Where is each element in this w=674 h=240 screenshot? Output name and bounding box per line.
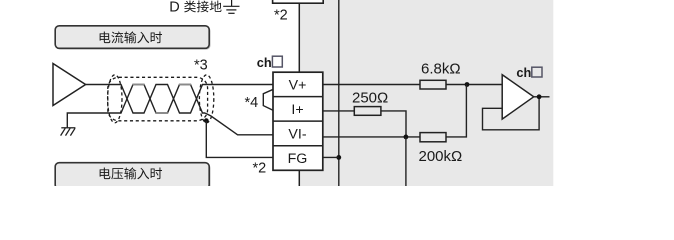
wire: source to V+ (upper conductor) (86, 85, 273, 114)
svg-text:200kΩ: 200kΩ (419, 148, 463, 165)
callout box: 电流输入时 (current input) (57, 27, 211, 50)
module shaded area (299, 0, 553, 186)
cable end ellipse (right) (199, 75, 213, 123)
svg-text:*2: *2 (253, 161, 267, 177)
svg-text:6.8kΩ: 6.8kΩ (421, 61, 461, 78)
wire: lower conductor to source ground (67, 113, 112, 128)
wire: shield to FG (206, 121, 273, 158)
label: 类接地 glyphs (184, 1, 221, 13)
wire: V+ to 6.8k resistor (323, 84, 420, 86)
wire: lower conductor to VI- (205, 113, 273, 135)
FG bus wire (vertical, full height) (338, 0, 340, 186)
svg-text:VI-: VI- (288, 126, 306, 142)
node: shunt junction on VI- wire (404, 135, 409, 140)
svg-text:I+: I+ (291, 102, 303, 118)
output wire (534, 96, 550, 98)
svg-text:D: D (169, 0, 179, 16)
module left boundary line (298, 0, 300, 186)
feedback loop wire (483, 97, 540, 130)
lower conductor (twisted with upper) (112, 85, 205, 114)
wire: 250 resistor down to VI- wire (381, 111, 406, 137)
svg-text:V+: V+ (289, 77, 307, 93)
cable end ellipse (left) (108, 75, 122, 123)
wire: junction down to next stage (cut off) (405, 137, 407, 186)
svg-text:ch: ch (516, 65, 531, 80)
node: summing point (465, 82, 470, 87)
terminal box of channel above (cut off at top) (273, 0, 324, 3)
output node dot (537, 94, 542, 99)
wire: VI- to 200k resistor (323, 136, 420, 138)
wire: FG to bus (323, 156, 339, 158)
wire: 6.8k to op-amp input (446, 84, 502, 86)
terminal block V+/I+/VI-/FG (273, 72, 323, 170)
wire: 200k up to summing node (446, 85, 466, 137)
shield junction dot (204, 118, 209, 123)
callout text: 电压输入时 (100, 167, 162, 179)
chassis ground at source (61, 128, 76, 136)
callout text: 电流输入时 (100, 31, 162, 43)
svg-text:250Ω: 250Ω (352, 89, 388, 106)
node: FG to bus junction (336, 155, 341, 160)
op-amp buffer (502, 75, 534, 119)
svg-text:*4: *4 (245, 95, 259, 111)
svg-text:FG: FG (288, 151, 308, 167)
jumper V+ to I+ (*4) (263, 89, 273, 110)
lower conductor gray flat segments (132, 85, 191, 114)
svg-text:ch: ch (257, 55, 272, 70)
callout box: 电压输入时 (voltage input) (57, 164, 211, 190)
signal source amplifier (triangle) (53, 64, 86, 106)
wire: I+ to 250 resistor (323, 110, 355, 112)
resistor 6.8kOhm (420, 80, 446, 89)
svg-text:*2: *2 (274, 8, 288, 24)
svg-text:*3: *3 (194, 58, 208, 74)
shielded twisted pair cable (dashed shield) (108, 77, 208, 121)
resistor 250Ohm (354, 107, 381, 116)
resistor 200kOhm (420, 133, 446, 142)
ground symbol (D-class earth) (223, 0, 239, 13)
